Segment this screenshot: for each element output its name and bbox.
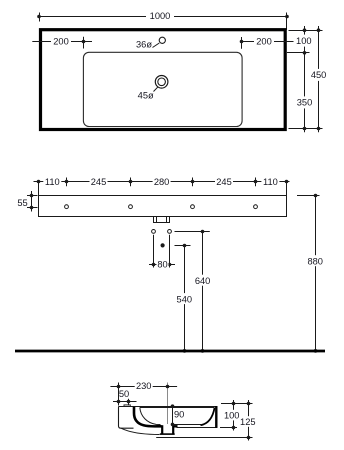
svg-text:200: 200 [256, 37, 272, 47]
svg-text:640: 640 [195, 276, 211, 286]
svg-text:350: 350 [297, 98, 313, 108]
svg-text:80: 80 [157, 260, 167, 270]
svg-text:45ø: 45ø [138, 91, 154, 101]
svg-text:450: 450 [311, 70, 327, 80]
svg-text:100: 100 [296, 36, 312, 46]
svg-text:245: 245 [91, 177, 107, 187]
svg-text:125: 125 [240, 417, 256, 427]
svg-text:110: 110 [263, 177, 278, 187]
svg-text:90: 90 [174, 409, 184, 419]
svg-text:100: 100 [224, 410, 240, 420]
svg-text:280: 280 [154, 177, 170, 187]
svg-text:880: 880 [307, 257, 323, 267]
svg-text:36ø: 36ø [136, 40, 152, 50]
svg-text:230: 230 [136, 381, 152, 391]
svg-text:50: 50 [119, 389, 129, 399]
svg-text:245: 245 [216, 177, 232, 187]
svg-text:200: 200 [53, 37, 69, 47]
svg-text:540: 540 [177, 295, 193, 305]
svg-text:55: 55 [17, 198, 27, 208]
svg-text:1000: 1000 [150, 11, 171, 21]
svg-text:110: 110 [45, 177, 60, 187]
